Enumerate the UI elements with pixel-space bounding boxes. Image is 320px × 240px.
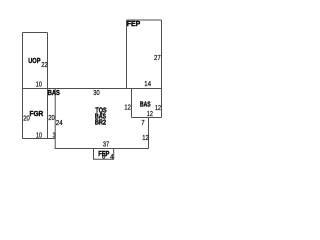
svg-text:BAS: BAS xyxy=(48,88,60,97)
svg-text:22: 22 xyxy=(41,60,47,69)
svg-text:12: 12 xyxy=(124,103,130,112)
svg-text:30: 30 xyxy=(93,88,99,97)
svg-text:10: 10 xyxy=(36,130,42,139)
wall: BAS(right) bottom edge xyxy=(132,117,162,119)
wall: FGR bottom + 3ft strip bottom xyxy=(23,138,56,140)
svg-text:3: 3 xyxy=(53,130,56,139)
svg-text:27: 27 xyxy=(154,53,161,62)
wall: main-block left edge (24 ft) xyxy=(54,89,56,149)
svg-text:UOP: UOP xyxy=(28,56,40,65)
svg-text:14: 14 xyxy=(144,79,151,88)
wall: FEP(bottom) left edge xyxy=(93,149,95,160)
svg-text:12: 12 xyxy=(142,133,149,142)
svg-text:4: 4 xyxy=(110,152,113,161)
wall: band top edge (UOP bottom, FGR top, FEP bottom) xyxy=(23,88,162,90)
wall: main right lower edge xyxy=(148,118,150,149)
wall: UOP right / FGR right / main-left edge xyxy=(47,33,49,139)
wall: FEP(top) top edge xyxy=(127,19,162,21)
wall: FEP(top)/BAS right outer edge xyxy=(161,20,163,118)
wall: FEP(top) left edge xyxy=(126,20,128,89)
svg-text:12: 12 xyxy=(147,109,153,118)
svg-text:7: 7 xyxy=(141,118,144,127)
wall: FEP(bottom) right edge xyxy=(113,149,115,160)
wall: main bottom edge xyxy=(55,148,149,150)
wall: UOP/FGR left edge xyxy=(22,33,24,139)
svg-text:24: 24 xyxy=(56,118,63,127)
svg-text:12: 12 xyxy=(155,103,161,112)
svg-text:37: 37 xyxy=(103,140,109,149)
svg-text:20: 20 xyxy=(48,113,55,122)
svg-text:BAS: BAS xyxy=(140,99,151,108)
wall: BAS(right) left edge xyxy=(131,89,133,118)
svg-text:10: 10 xyxy=(36,79,42,88)
wall: UOP top edge xyxy=(23,32,48,34)
wall: FEP(bottom) bottom edge xyxy=(94,158,114,160)
svg-text:20: 20 xyxy=(23,113,30,122)
svg-text:FEP: FEP xyxy=(127,19,141,28)
svg-text:FGR: FGR xyxy=(30,109,44,118)
svg-text:BR2: BR2 xyxy=(95,118,106,127)
svg-text:8: 8 xyxy=(102,152,105,161)
